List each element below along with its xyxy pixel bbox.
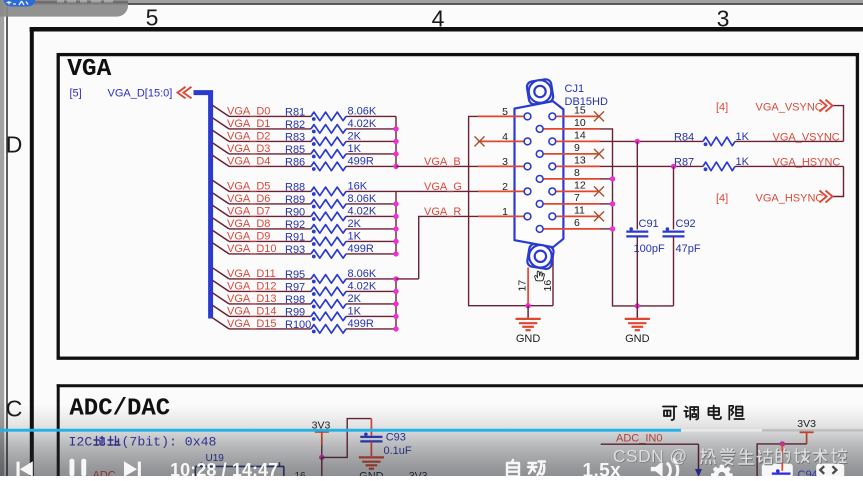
svg-text:[4]: [4]: [716, 192, 728, 204]
svg-text:4.02K: 4.02K: [348, 281, 377, 293]
svg-text:R91: R91: [285, 232, 305, 244]
svg-text:C91: C91: [639, 218, 659, 230]
svg-text:[4]: [4]: [716, 101, 728, 113]
svg-text:10:28 / 14:47: 10:28 / 14:47: [170, 460, 278, 476]
svg-text:VGA_D9: VGA_D9: [227, 231, 270, 243]
svg-text:1K: 1K: [348, 143, 362, 155]
svg-text:R99: R99: [285, 307, 305, 319]
svg-text:VGA_VSYNC: VGA_VSYNC: [756, 101, 823, 113]
svg-text:499R: 499R: [348, 156, 374, 168]
svg-text:47pF: 47pF: [676, 243, 701, 255]
svg-text:R88: R88: [285, 182, 305, 194]
svg-text:VGA_B: VGA_B: [424, 156, 461, 168]
svg-text:VGA_D4: VGA_D4: [227, 156, 270, 168]
svg-text:8.06K: 8.06K: [348, 106, 377, 118]
svg-text:VGA_D10: VGA_D10: [227, 243, 277, 255]
svg-text:15: 15: [574, 105, 586, 117]
svg-text:VGA_D1: VGA_D1: [227, 118, 270, 130]
svg-text:8: 8: [574, 167, 580, 179]
svg-text:VGA_D8: VGA_D8: [227, 218, 270, 230]
svg-text:100pF: 100pF: [634, 243, 665, 255]
svg-text:VGA_VSYNC: VGA_VSYNC: [773, 132, 840, 144]
svg-text:VGA_D[15:0]: VGA_D[15:0]: [108, 88, 173, 100]
svg-text:R92: R92: [285, 219, 305, 231]
svg-text:R81: R81: [285, 107, 305, 119]
svg-text:6: 6: [574, 217, 580, 229]
svg-text:499R: 499R: [348, 318, 374, 330]
svg-text:R95: R95: [285, 269, 305, 281]
svg-text:VGA_D6: VGA_D6: [227, 193, 270, 205]
svg-text:R90: R90: [285, 207, 305, 219]
svg-text:1K: 1K: [348, 231, 362, 243]
svg-text:DB15HD: DB15HD: [565, 96, 608, 108]
svg-text:1K: 1K: [736, 131, 750, 143]
svg-text:499R: 499R: [348, 243, 374, 255]
svg-text:VGA_D14: VGA_D14: [227, 306, 277, 318]
svg-text:VGA_D3: VGA_D3: [227, 143, 270, 155]
svg-text:R85: R85: [285, 144, 305, 156]
svg-text:R97: R97: [285, 282, 305, 294]
svg-text:GND: GND: [625, 333, 650, 345]
svg-text:16K: 16K: [348, 181, 368, 193]
svg-text:3: 3: [502, 156, 508, 168]
svg-text:VGA_D2: VGA_D2: [227, 131, 270, 143]
svg-text:CSDN @: CSDN @: [613, 446, 688, 466]
svg-text:D: D: [6, 132, 23, 158]
svg-text:[5]: [5]: [70, 88, 82, 100]
svg-text:5: 5: [146, 5, 159, 31]
svg-text:VGA_D7: VGA_D7: [227, 206, 270, 218]
svg-text:9: 9: [574, 142, 580, 154]
svg-text:8.06K: 8.06K: [348, 193, 377, 205]
svg-text:VGA_D5: VGA_D5: [227, 181, 270, 193]
svg-text:1: 1: [502, 206, 508, 218]
svg-text:VGA_D12: VGA_D12: [227, 281, 277, 293]
svg-text:14: 14: [574, 130, 586, 142]
svg-text:1K: 1K: [736, 156, 750, 168]
svg-text:5: 5: [502, 106, 508, 118]
svg-text:R87: R87: [674, 156, 694, 168]
svg-text:R84: R84: [674, 131, 694, 143]
svg-text:16: 16: [542, 280, 554, 292]
svg-text:VGA_HSYNC: VGA_HSYNC: [773, 157, 841, 169]
svg-text:R86: R86: [285, 157, 305, 169]
svg-text:VGA_D11: VGA_D11: [227, 268, 276, 280]
svg-text:VGA_D0: VGA_D0: [227, 106, 270, 118]
svg-text:VGA_G: VGA_G: [424, 181, 462, 193]
svg-text:2: 2: [502, 181, 508, 193]
svg-text:VGA_D15: VGA_D15: [227, 318, 277, 330]
svg-text:VGA_D13: VGA_D13: [227, 293, 277, 305]
svg-text:7: 7: [574, 192, 580, 204]
svg-text:1K: 1K: [348, 306, 362, 318]
svg-text:4: 4: [502, 131, 508, 143]
svg-text:8.06K: 8.06K: [348, 268, 377, 280]
svg-text:11: 11: [574, 205, 585, 217]
svg-text:2K: 2K: [348, 131, 362, 143]
svg-text:CJ1: CJ1: [565, 83, 585, 95]
svg-text:R83: R83: [285, 132, 305, 144]
svg-text:VGA_HSYNC: VGA_HSYNC: [756, 192, 824, 204]
svg-text:GND: GND: [516, 333, 541, 345]
svg-text:R89: R89: [285, 194, 305, 206]
svg-text:2K: 2K: [348, 293, 362, 305]
svg-text:R93: R93: [285, 244, 305, 256]
svg-text:10: 10: [574, 117, 586, 129]
svg-text:C92: C92: [676, 218, 696, 230]
svg-text:13: 13: [574, 155, 586, 167]
svg-text:R100: R100: [285, 319, 311, 331]
svg-text:12: 12: [574, 180, 586, 192]
svg-text:4.02K: 4.02K: [348, 206, 377, 218]
svg-text:VGA_R: VGA_R: [424, 206, 461, 218]
svg-text:4.02K: 4.02K: [348, 118, 377, 130]
svg-text:2K: 2K: [348, 218, 362, 230]
svg-text:C94: C94: [798, 469, 818, 476]
svg-text:17: 17: [517, 280, 529, 292]
svg-text:R82: R82: [285, 119, 305, 131]
svg-text:R98: R98: [285, 294, 305, 306]
svg-text:VGA: VGA: [67, 56, 111, 83]
